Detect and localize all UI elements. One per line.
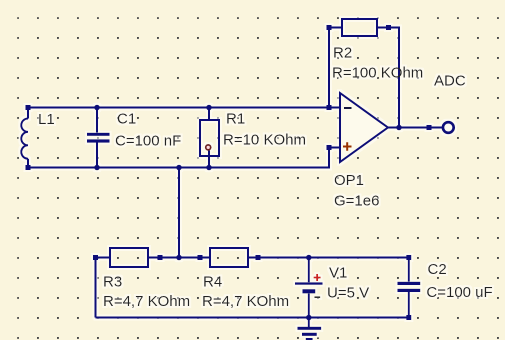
resistor R2 — [327, 19, 424, 128]
svg-text:R=10 KOhm: R=10 KOhm — [223, 132, 306, 149]
resistor R3 — [93, 248, 190, 310]
svg-text:OP1: OP1 — [334, 172, 364, 189]
wire bottom rail — [28, 167, 329, 169]
svg-text:R=4,7 KOhm: R=4,7 KOhm — [202, 293, 289, 310]
svg-text:R=4,7 KOhm: R=4,7 KOhm — [103, 293, 190, 310]
svg-text:ADC: ADC — [434, 73, 466, 90]
inductor L1 — [21, 105, 54, 170]
svg-text:C2: C2 — [428, 261, 447, 278]
wire top rail node A — [28, 107, 340, 109]
svg-text:L1: L1 — [38, 111, 55, 128]
ground — [298, 318, 322, 340]
node port pin dot — [427, 125, 432, 130]
wire tank to divider — [178, 168, 180, 258]
wire divider top rail — [96, 257, 409, 259]
svg-text:C=100 nF: C=100 nF — [115, 132, 181, 149]
wire op-amp output — [388, 127, 443, 129]
svg-text:R1: R1 — [226, 111, 245, 128]
svg-text:C1: C1 — [117, 111, 136, 128]
svg-text:U=5 V: U=5 V — [327, 285, 369, 302]
port ADC — [434, 73, 466, 133]
svg-text:R=100 KOhm: R=100 KOhm — [332, 65, 423, 82]
wire divider left drop — [95, 258, 97, 318]
node divider junction — [176, 255, 182, 261]
svg-text:R4: R4 — [203, 274, 222, 291]
svg-text:R3: R3 — [103, 274, 122, 291]
node tank tap junction — [176, 165, 182, 171]
node output junction — [396, 125, 402, 131]
capacitor C2 — [398, 255, 493, 320]
svg-text:V1: V1 — [329, 265, 347, 282]
wire bottom ground rail — [96, 317, 409, 319]
resistor R4 — [198, 248, 290, 310]
svg-text:C=100 uF: C=100 uF — [426, 284, 492, 301]
svg-text:G=1e6: G=1e6 — [334, 193, 379, 210]
op-amp OP1 — [327, 93, 389, 210]
capacitor C1 — [87, 105, 181, 171]
wire op-amp + input — [329, 148, 340, 169]
node marker on R1 — [206, 145, 211, 150]
resistor R1 — [200, 105, 306, 171]
voltage source V1 — [295, 255, 369, 321]
svg-text:R2: R2 — [333, 45, 352, 62]
